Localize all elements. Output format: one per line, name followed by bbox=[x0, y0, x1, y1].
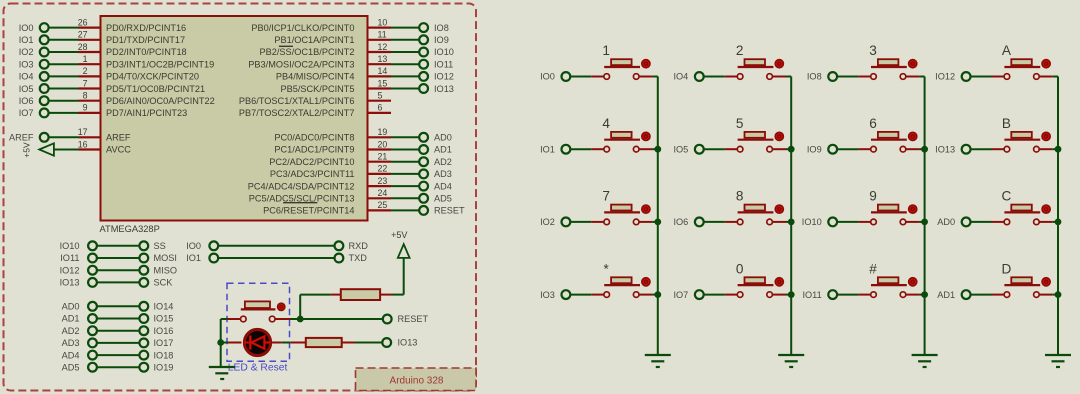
terminal IO8 bbox=[419, 23, 449, 33]
terminal IO7 bbox=[19, 108, 49, 118]
svg-text:IO10: IO10 bbox=[434, 47, 454, 57]
svg-text:3: 3 bbox=[869, 43, 877, 58]
svg-text:AD0: AD0 bbox=[434, 133, 452, 143]
svg-text:20: 20 bbox=[378, 139, 388, 149]
terminal IO17 bbox=[139, 338, 173, 348]
svg-text:#: # bbox=[869, 261, 877, 276]
wire bbox=[992, 221, 1005, 223]
svg-text:PD7/AIN1/PCINT23: PD7/AIN1/PCINT23 bbox=[106, 108, 187, 118]
pin 28 (PD2) bbox=[78, 42, 101, 52]
ground bbox=[1045, 355, 1071, 367]
terminal IO9 bbox=[419, 35, 449, 45]
svg-text:IO11: IO11 bbox=[802, 290, 821, 300]
pin 6 (PB7) bbox=[368, 103, 392, 113]
wire bbox=[992, 294, 1005, 296]
svg-text:IO5: IO5 bbox=[673, 144, 688, 154]
svg-text:AD1: AD1 bbox=[434, 145, 452, 155]
terminal IO6 bbox=[673, 217, 703, 227]
svg-text:IO14: IO14 bbox=[154, 302, 174, 312]
svg-text:IO3: IO3 bbox=[19, 59, 34, 69]
svg-text:IO18: IO18 bbox=[154, 350, 174, 360]
wire bbox=[858, 294, 871, 296]
wire bbox=[48, 51, 78, 53]
terminal IO12 bbox=[935, 72, 970, 82]
terminal IO13 bbox=[419, 84, 454, 94]
svg-text:PD6/AIN0/OC0A/PCINT22: PD6/AIN0/OC0A/PCINT22 bbox=[106, 96, 215, 106]
svg-text:PB3/MOSI/OC2A/PCINT3: PB3/MOSI/OC2A/PCINT3 bbox=[248, 59, 354, 69]
svg-text:PC0/ADC0/PCINT8: PC0/ADC0/PCINT8 bbox=[274, 133, 354, 143]
svg-text:AD1: AD1 bbox=[62, 314, 80, 324]
svg-text:PD3/INT1/OC2B/PCINT19: PD3/INT1/OC2B/PCINT19 bbox=[106, 59, 214, 69]
wire bbox=[391, 88, 420, 90]
svg-text:13: 13 bbox=[378, 54, 388, 64]
wire bbox=[221, 342, 242, 344]
svg-text:IO7: IO7 bbox=[19, 108, 34, 118]
svg-text:PD0/RXD/PCINT16: PD0/RXD/PCINT16 bbox=[106, 23, 186, 33]
svg-text:IO1: IO1 bbox=[540, 144, 555, 154]
push button * bbox=[604, 261, 650, 297]
wire bbox=[970, 148, 991, 150]
wire bbox=[703, 148, 724, 150]
wire bbox=[228, 342, 242, 344]
push button (reset) bbox=[241, 301, 285, 321]
svg-text:IO8: IO8 bbox=[434, 23, 449, 33]
terminal IO11 bbox=[419, 59, 453, 69]
terminal IO7 bbox=[673, 290, 703, 300]
svg-text:IO0: IO0 bbox=[19, 23, 34, 33]
svg-text:MISO: MISO bbox=[154, 265, 177, 275]
terminal IO13 bbox=[382, 338, 417, 348]
wire bbox=[97, 318, 140, 320]
wire bbox=[391, 75, 420, 77]
svg-text:1: 1 bbox=[602, 43, 610, 58]
svg-text:D: D bbox=[1001, 261, 1011, 276]
terminal IO1 bbox=[186, 253, 218, 263]
pin 14 (PB4) bbox=[368, 66, 392, 76]
wire bbox=[220, 319, 222, 367]
svg-text:25: 25 bbox=[378, 200, 388, 210]
pin 13 (PB3) bbox=[368, 54, 392, 64]
svg-text:19: 19 bbox=[378, 127, 388, 137]
svg-text:IO10: IO10 bbox=[802, 217, 822, 227]
svg-text:AD2: AD2 bbox=[434, 157, 452, 167]
svg-text:IO6: IO6 bbox=[19, 96, 34, 106]
wire bbox=[786, 148, 791, 150]
svg-text:ATMEGA328P: ATMEGA328P bbox=[100, 224, 160, 234]
wire bbox=[773, 221, 787, 223]
svg-text:IO11: IO11 bbox=[60, 253, 79, 263]
junction bbox=[788, 146, 794, 152]
wire bbox=[639, 221, 653, 223]
junction bbox=[1055, 146, 1061, 152]
svg-text:12: 12 bbox=[378, 42, 388, 52]
pin 17 (AREF) bbox=[78, 127, 101, 137]
svg-text:PD4/T0/XCK/PCINT20: PD4/T0/XCK/PCINT20 bbox=[106, 72, 199, 82]
svg-text:17: 17 bbox=[78, 127, 88, 137]
wire bbox=[48, 39, 78, 41]
wire bbox=[391, 63, 420, 65]
wire bbox=[391, 209, 420, 211]
terminal AD2 bbox=[419, 157, 452, 167]
svg-text:PB4/MISO/PCINT4: PB4/MISO/PCINT4 bbox=[276, 72, 355, 82]
wire bbox=[773, 294, 787, 296]
terminal IO10 bbox=[802, 217, 837, 227]
wire bbox=[275, 318, 290, 320]
push button 1 bbox=[602, 43, 650, 79]
wire bbox=[1053, 294, 1058, 296]
junction bbox=[922, 292, 928, 298]
wire bbox=[992, 76, 1005, 78]
terminal AD1 bbox=[937, 290, 970, 300]
wire bbox=[653, 294, 658, 296]
svg-text:IO15: IO15 bbox=[154, 314, 174, 324]
svg-text:IO5: IO5 bbox=[19, 84, 34, 94]
wire bbox=[639, 294, 653, 296]
push button 4 bbox=[602, 116, 650, 152]
terminal IO13 bbox=[60, 278, 97, 288]
terminal SS bbox=[139, 241, 165, 251]
svg-text:B: B bbox=[1002, 116, 1011, 131]
svg-text:7: 7 bbox=[602, 189, 610, 204]
svg-text:PB5/SCK/PCINT5: PB5/SCK/PCINT5 bbox=[280, 84, 354, 94]
svg-text:22: 22 bbox=[378, 164, 388, 174]
wire bbox=[97, 354, 140, 356]
svg-text:28: 28 bbox=[78, 42, 88, 52]
ground bbox=[912, 355, 938, 367]
terminal IO4 bbox=[673, 72, 703, 82]
wire bbox=[221, 318, 241, 320]
svg-text:IO6: IO6 bbox=[673, 217, 688, 227]
wire bbox=[1053, 148, 1058, 150]
svg-text:8: 8 bbox=[83, 91, 88, 101]
wire bbox=[331, 294, 341, 296]
push button 3 bbox=[869, 43, 917, 79]
wire bbox=[653, 148, 658, 150]
terminal MISO bbox=[139, 265, 177, 275]
wire bbox=[591, 221, 604, 223]
push button D bbox=[1001, 261, 1050, 297]
svg-text:5: 5 bbox=[378, 91, 383, 101]
wire bbox=[48, 27, 78, 29]
svg-text:IO4: IO4 bbox=[673, 72, 688, 82]
wire bbox=[48, 112, 78, 114]
wire bbox=[919, 76, 924, 78]
wire bbox=[48, 75, 78, 77]
wire bbox=[906, 76, 920, 78]
svg-text:Arduino 328: Arduino 328 bbox=[390, 376, 444, 387]
wire bbox=[858, 76, 871, 78]
pin 24 (PC5) bbox=[368, 188, 392, 198]
svg-text:IO11: IO11 bbox=[434, 59, 453, 69]
wire bbox=[639, 148, 653, 150]
wire bbox=[837, 148, 858, 150]
wire bbox=[837, 294, 858, 296]
terminal IO11 bbox=[802, 290, 837, 300]
wire bbox=[299, 295, 301, 319]
junction bbox=[1055, 219, 1061, 225]
svg-text:IO2: IO2 bbox=[19, 47, 34, 57]
wire bbox=[97, 342, 140, 344]
pin 10 (PB0) bbox=[368, 17, 392, 27]
terminal IO0 bbox=[186, 241, 218, 251]
terminal AD4 bbox=[62, 350, 97, 360]
junction bbox=[655, 146, 661, 152]
pin 19 (PC0) bbox=[368, 127, 392, 137]
terminal IO0 bbox=[19, 23, 49, 33]
svg-text:PB2/SS/OC1B/PCINT2: PB2/SS/OC1B/PCINT2 bbox=[260, 47, 355, 57]
column wire bbox=[924, 77, 926, 356]
wire bbox=[570, 76, 591, 78]
svg-text:PB1/OC1A/PCINT1: PB1/OC1A/PCINT1 bbox=[274, 35, 354, 45]
svg-text:PD5/T1/OC0B/PCINT21: PD5/T1/OC0B/PCINT21 bbox=[106, 84, 205, 94]
svg-text:6: 6 bbox=[869, 116, 877, 131]
svg-text:IO12: IO12 bbox=[935, 72, 955, 82]
svg-text:24: 24 bbox=[378, 188, 388, 198]
wire bbox=[786, 221, 791, 223]
pin 15 (PB5) bbox=[368, 78, 392, 88]
svg-text:*: * bbox=[604, 261, 610, 276]
svg-text:PC2/ADC2/PCINT10: PC2/ADC2/PCINT10 bbox=[269, 157, 354, 167]
svg-text:AD2: AD2 bbox=[62, 326, 80, 336]
push button B bbox=[1002, 116, 1050, 152]
terminal IO3 bbox=[19, 59, 49, 69]
pin 7 (PD5) bbox=[79, 78, 101, 88]
wire bbox=[391, 161, 420, 163]
svg-text:0: 0 bbox=[736, 261, 744, 276]
svg-text:IO13: IO13 bbox=[434, 84, 454, 94]
wire bbox=[228, 318, 241, 320]
terminal IO3 bbox=[540, 290, 570, 300]
junction bbox=[218, 340, 224, 346]
svg-text:AD3: AD3 bbox=[62, 338, 80, 348]
svg-text:IO13: IO13 bbox=[935, 144, 955, 154]
column wire bbox=[1057, 77, 1059, 356]
wire bbox=[703, 76, 724, 78]
wire bbox=[837, 76, 858, 78]
svg-text:9: 9 bbox=[83, 103, 88, 113]
terminal AD0 bbox=[937, 217, 970, 227]
wire bbox=[355, 342, 383, 344]
pin 9 (PD7) bbox=[79, 103, 101, 113]
junction bbox=[788, 292, 794, 298]
wire bbox=[773, 76, 787, 78]
svg-text:IO13: IO13 bbox=[398, 338, 418, 348]
wire bbox=[391, 51, 420, 53]
wire bbox=[48, 88, 78, 90]
wire bbox=[970, 76, 991, 78]
wire bbox=[97, 366, 140, 368]
resistor (LED series) bbox=[306, 338, 342, 347]
wire bbox=[906, 221, 920, 223]
pin 11 (PB1) bbox=[368, 30, 392, 40]
svg-text:PB6/TOSC1/XTAL1/PCINT6: PB6/TOSC1/XTAL1/PCINT6 bbox=[239, 96, 355, 106]
svg-text:IO12: IO12 bbox=[434, 72, 454, 82]
svg-text:IO9: IO9 bbox=[434, 35, 449, 45]
push button 5 bbox=[736, 116, 784, 152]
svg-text:LED & Reset: LED & Reset bbox=[228, 362, 288, 373]
svg-text:7: 7 bbox=[83, 78, 88, 88]
svg-text:A: A bbox=[1002, 43, 1012, 58]
svg-text:+5V: +5V bbox=[391, 230, 407, 240]
pin 1 (PD3) bbox=[79, 54, 101, 64]
wire bbox=[391, 136, 420, 138]
power +5V (AVCC) bbox=[22, 142, 54, 158]
wire bbox=[858, 148, 871, 150]
pin 26 (PD0) bbox=[78, 17, 101, 27]
wire bbox=[570, 221, 591, 223]
junction bbox=[788, 219, 794, 225]
terminal IO10 bbox=[419, 47, 454, 57]
terminal IO6 bbox=[19, 96, 49, 106]
svg-text:4: 4 bbox=[602, 116, 610, 131]
wire bbox=[391, 149, 420, 151]
svg-text:PC6/RESET/PCINT14: PC6/RESET/PCINT14 bbox=[263, 206, 354, 216]
svg-text:RESET: RESET bbox=[434, 206, 465, 216]
wire bbox=[291, 318, 384, 320]
pin 25 (PC6) bbox=[368, 200, 392, 210]
svg-text:IO3: IO3 bbox=[540, 290, 555, 300]
terminal RESET bbox=[419, 206, 465, 216]
wire bbox=[703, 294, 724, 296]
wire bbox=[271, 342, 281, 344]
wire bbox=[906, 294, 920, 296]
push button 0 bbox=[736, 261, 784, 297]
svg-text:10: 10 bbox=[378, 17, 388, 27]
ground bbox=[645, 355, 671, 367]
svg-text:IO10: IO10 bbox=[60, 241, 80, 251]
svg-text:11: 11 bbox=[378, 30, 387, 40]
svg-text:6: 6 bbox=[378, 103, 383, 113]
terminal IO0 bbox=[540, 72, 570, 82]
svg-text:AD0: AD0 bbox=[937, 217, 955, 227]
push button 8 bbox=[736, 189, 784, 225]
pin 23 (PC4) bbox=[368, 176, 392, 186]
junction bbox=[655, 292, 661, 298]
svg-text:IO9: IO9 bbox=[807, 144, 822, 154]
terminal IO19 bbox=[139, 362, 173, 372]
resistor (reset pull-up) bbox=[341, 289, 380, 300]
wire bbox=[703, 221, 724, 223]
svg-text:AREF: AREF bbox=[9, 133, 34, 143]
terminal IO16 bbox=[139, 326, 173, 336]
terminal AD1 bbox=[62, 314, 97, 324]
svg-text:AD1: AD1 bbox=[937, 290, 955, 300]
terminal IO11 bbox=[60, 253, 97, 263]
wire bbox=[218, 245, 335, 247]
terminal IO18 bbox=[139, 350, 173, 360]
svg-text:PC1/ADC1/PCINT9: PC1/ADC1/PCINT9 bbox=[274, 145, 354, 155]
pin 8 (PD6) bbox=[79, 91, 101, 101]
wire bbox=[342, 342, 355, 344]
terminal RESET bbox=[383, 314, 429, 324]
wire bbox=[218, 257, 335, 259]
svg-text:IO2: IO2 bbox=[540, 217, 555, 227]
terminal AD2 bbox=[62, 326, 97, 336]
svg-text:TXD: TXD bbox=[349, 253, 368, 263]
wire bbox=[97, 305, 140, 307]
wire bbox=[970, 294, 991, 296]
wire bbox=[392, 294, 404, 296]
terminal AREF bbox=[9, 133, 49, 143]
push button 2 bbox=[736, 43, 784, 79]
terminal IO15 bbox=[139, 314, 173, 324]
terminal IO5 bbox=[673, 144, 703, 154]
svg-text:IO0: IO0 bbox=[540, 72, 555, 82]
svg-text:PB0/ICP1/CLKO/PCINT0: PB0/ICP1/CLKO/PCINT0 bbox=[251, 23, 354, 33]
wire bbox=[653, 76, 658, 78]
pin 5 (PB6) bbox=[368, 91, 392, 101]
svg-text:IO12: IO12 bbox=[60, 265, 80, 275]
svg-text:IO4: IO4 bbox=[19, 72, 34, 82]
terminal IO12 bbox=[419, 72, 454, 82]
push button A bbox=[1002, 43, 1050, 79]
ground bbox=[778, 355, 804, 367]
wire bbox=[1053, 76, 1058, 78]
wire bbox=[639, 76, 653, 78]
svg-text:IO16: IO16 bbox=[154, 326, 174, 336]
svg-text:AD5: AD5 bbox=[434, 194, 452, 204]
svg-text:2: 2 bbox=[83, 66, 88, 76]
svg-text:26: 26 bbox=[78, 17, 88, 27]
wire bbox=[291, 342, 306, 344]
svg-text:AVCC: AVCC bbox=[106, 145, 131, 155]
svg-text:SCK: SCK bbox=[154, 278, 174, 288]
label LED & Reset bbox=[228, 362, 288, 373]
push button 7 bbox=[602, 189, 650, 225]
terminal IO14 bbox=[139, 302, 173, 312]
terminal IO2 bbox=[540, 217, 570, 227]
junction bbox=[1055, 292, 1061, 298]
pin 2 (PD4) bbox=[79, 66, 101, 76]
svg-text:14: 14 bbox=[378, 66, 388, 76]
wire bbox=[837, 221, 858, 223]
terminal IO1 bbox=[540, 144, 570, 154]
label box Arduino 328 bbox=[356, 368, 477, 391]
junction bbox=[655, 219, 661, 225]
svg-text:RESET: RESET bbox=[398, 314, 429, 324]
terminal IO2 bbox=[19, 47, 49, 57]
svg-text:IO13: IO13 bbox=[60, 278, 80, 288]
child sheet boundary (LED & Reset) bbox=[227, 283, 290, 361]
wire bbox=[48, 63, 78, 65]
wire bbox=[919, 221, 924, 223]
LED D1 bbox=[244, 329, 271, 355]
svg-text:IO0: IO0 bbox=[186, 241, 201, 251]
terminal SCK bbox=[139, 278, 173, 288]
wire bbox=[786, 294, 791, 296]
wire bbox=[1039, 294, 1053, 296]
pin 16 (AVCC) bbox=[78, 139, 101, 149]
wire bbox=[725, 221, 738, 223]
wire bbox=[570, 148, 591, 150]
IC U1 reference label ATMEGA328P bbox=[100, 224, 160, 234]
pin 12 (PB2) bbox=[368, 42, 392, 52]
terminal AD0 bbox=[62, 302, 97, 312]
wire bbox=[97, 257, 140, 259]
wire bbox=[786, 76, 791, 78]
wire bbox=[282, 342, 291, 344]
svg-text:SS: SS bbox=[154, 241, 166, 251]
wire bbox=[919, 294, 924, 296]
subcircuit boundary (Arduino 328 module) bbox=[4, 4, 477, 391]
svg-text:AD4: AD4 bbox=[62, 350, 80, 360]
svg-text:AREF: AREF bbox=[106, 133, 131, 143]
svg-text:9: 9 bbox=[869, 189, 877, 204]
wire bbox=[403, 258, 405, 295]
wire bbox=[391, 173, 420, 175]
wire bbox=[97, 245, 140, 247]
svg-text:27: 27 bbox=[78, 30, 88, 40]
